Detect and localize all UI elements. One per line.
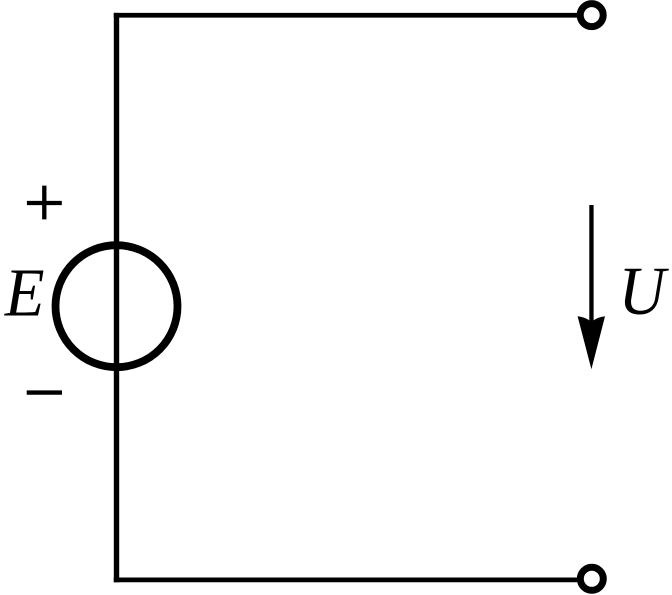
wire top horizontal	[114, 13, 578, 18]
voltage arrow U shaft	[589, 205, 593, 324]
wire bottom horizontal	[114, 578, 578, 583]
svg-text:U: U	[619, 253, 669, 329]
wire left vertical	[114, 13, 119, 582]
voltage source E (circle)	[56, 245, 178, 367]
polarity minus sign	[27, 390, 62, 394]
voltage arrow U head	[578, 316, 605, 369]
terminal bottom-right	[580, 567, 603, 590]
svg-text:E: E	[4, 255, 45, 331]
terminal top-right	[580, 4, 603, 27]
polarity plus sign	[27, 186, 62, 220]
